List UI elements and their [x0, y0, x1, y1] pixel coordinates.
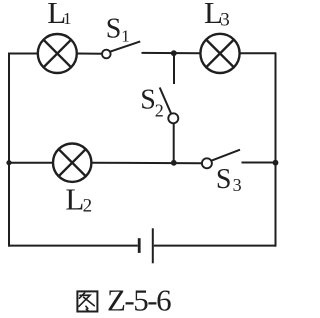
switch S3 — [202, 150, 240, 169]
svg-text:S: S — [140, 85, 156, 116]
label L3 — [204, 0, 230, 31]
wire: bottom left segment — [8, 245, 138, 247]
wire: L1 to S1 — [77, 53, 102, 55]
label L1 — [47, 0, 71, 30]
wire: L2 to S3 — [92, 162, 202, 165]
svg-text:1: 1 — [121, 26, 130, 45]
caption: character tu (drawn) — [77, 291, 97, 311]
wire: middle branch upper vertical — [173, 53, 175, 84]
label S3 — [216, 164, 242, 195]
svg-text:L: L — [65, 182, 84, 217]
svg-text:2: 2 — [155, 101, 164, 121]
svg-text:1: 1 — [63, 9, 72, 28]
switch S2 — [160, 88, 179, 124]
label L2 — [65, 182, 92, 217]
svg-text:S: S — [106, 14, 122, 45]
svg-text:3: 3 — [233, 175, 242, 195]
node: top junction — [171, 50, 177, 56]
svg-text:Z-5-6: Z-5-6 — [107, 282, 171, 317]
svg-text:2: 2 — [83, 196, 93, 217]
lamp L3 — [200, 34, 239, 73]
wire: right vertical — [275, 53, 277, 247]
wire: middle left segment — [8, 162, 54, 164]
switch S1 — [102, 41, 140, 58]
node: left junction — [6, 160, 11, 165]
wire: top left segment — [8, 53, 38, 55]
label S2 — [140, 85, 164, 121]
wire: bottom right segment — [154, 245, 276, 247]
wire: middle branch lower vertical — [173, 123, 175, 163]
battery negative plate (short) — [138, 238, 141, 253]
wire: left vertical — [8, 53, 10, 247]
node: middle junction — [171, 160, 177, 166]
wire: S1 to L3 — [142, 52, 201, 54]
lamp L1 — [38, 34, 77, 73]
wire: L3 to right — [239, 52, 276, 54]
svg-text:3: 3 — [220, 10, 230, 31]
node: right junction — [273, 160, 279, 166]
lamp L2 — [53, 144, 91, 182]
battery positive plate (long) — [152, 228, 154, 263]
wire: S3 to right — [242, 162, 277, 164]
label S1 — [106, 14, 130, 46]
svg-text:S: S — [216, 164, 232, 195]
